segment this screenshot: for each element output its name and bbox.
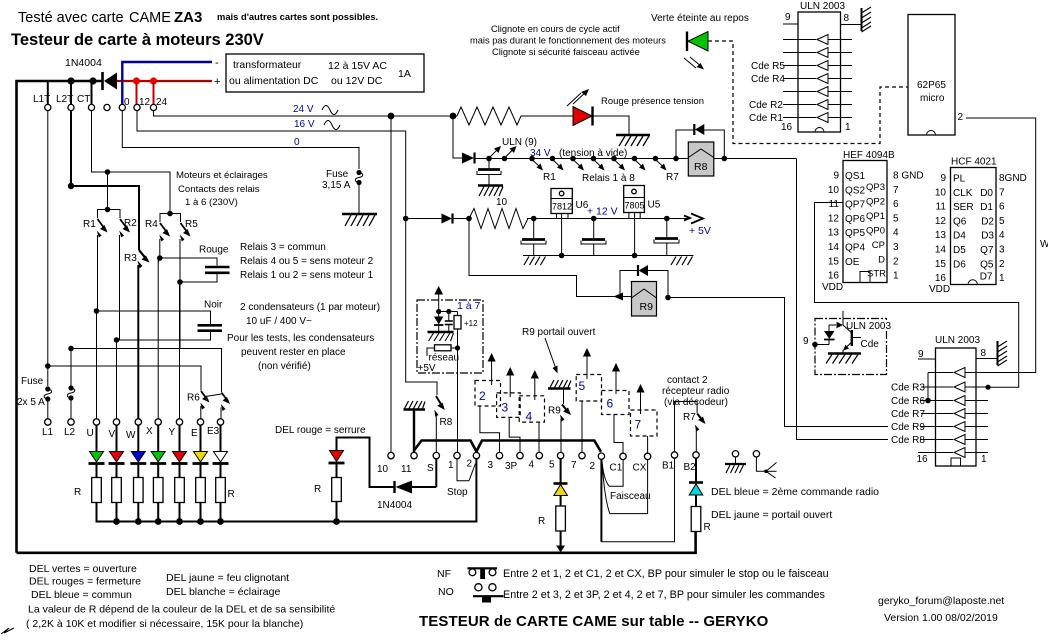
svg-text:5: 5 xyxy=(579,379,586,393)
svg-text:2: 2 xyxy=(467,459,473,470)
svg-text:Cde R9: Cde R9 xyxy=(891,422,925,433)
label DEL rouge serrure xyxy=(275,425,366,436)
svg-text:ULN 2003: ULN 2003 xyxy=(935,335,980,346)
svg-text:VDD: VDD xyxy=(822,282,843,293)
svg-text:2: 2 xyxy=(893,256,899,267)
wire Y line xyxy=(179,282,181,419)
label VDD HCF xyxy=(929,284,950,295)
svg-text:12 à 15V AC: 12 à 15V AC xyxy=(328,60,387,72)
chip HCF 4021 box xyxy=(951,168,997,285)
svg-text:6: 6 xyxy=(607,397,614,411)
hatch pad R9 xyxy=(548,380,571,389)
svg-text:QP6: QP6 xyxy=(845,214,865,225)
resistors R LED row xyxy=(92,464,226,503)
wire main input bus xyxy=(17,81,103,553)
pin 8 top ULN xyxy=(841,13,862,25)
svg-text:R8: R8 xyxy=(440,417,453,428)
transformer box xyxy=(214,54,424,92)
dashed box 6 xyxy=(602,391,630,415)
svg-text:QS1: QS1 xyxy=(845,171,865,182)
svg-text:R7: R7 xyxy=(666,172,679,183)
pin 8 bottom ULN xyxy=(976,348,997,359)
svg-text:4: 4 xyxy=(893,228,899,239)
svg-text:7: 7 xyxy=(893,185,899,196)
svg-text:W: W xyxy=(1040,239,1048,250)
svg-text:1: 1 xyxy=(999,273,1005,284)
fuse F1 3,15A xyxy=(355,170,363,213)
label R3 xyxy=(124,253,137,264)
fuse L1 xyxy=(44,386,52,418)
sine symbol 16V xyxy=(324,121,340,130)
wire L2 to switch E3 xyxy=(68,346,221,392)
svg-text:VDD: VDD xyxy=(929,284,950,295)
svg-text:1: 1 xyxy=(448,460,454,471)
legend NO symbol xyxy=(438,584,504,603)
svg-text:4: 4 xyxy=(526,410,533,424)
node rail dot ULN9b with up arrow xyxy=(502,146,517,161)
label 0 xyxy=(294,137,300,148)
svg-text:R1: R1 xyxy=(83,219,96,230)
arrow up box 6 xyxy=(612,363,620,394)
chip HEF 4094B title xyxy=(843,150,895,161)
node red junction 12 xyxy=(133,77,140,104)
svg-text:R2: R2 xyxy=(124,218,137,229)
node rail dot ULN9a with up arrow xyxy=(486,146,501,161)
resistor R jaune xyxy=(556,496,566,553)
svg-text:CT: CT xyxy=(77,94,90,105)
svg-text:11: 11 xyxy=(401,464,412,475)
svg-text:contact 2: contact 2 xyxy=(667,375,708,386)
label 1N4004 stop xyxy=(377,500,412,511)
label TESTEUR bottom xyxy=(419,613,769,630)
labels R4 R5 xyxy=(145,219,198,230)
relay contacts R4 R5 xyxy=(159,211,190,282)
pin 9 bottom ULN xyxy=(918,349,936,360)
svg-text:Clignote si sécurité faisceau: Clignote si sécurité faisceau activée xyxy=(492,47,640,57)
svg-text:8 GND: 8 GND xyxy=(893,171,924,182)
label R9 portail ouvert with arrow xyxy=(522,327,596,374)
svg-text:PL: PL xyxy=(953,174,966,185)
svg-text:9: 9 xyxy=(940,173,946,184)
HEF left labels xyxy=(845,171,865,268)
svg-text:5: 5 xyxy=(999,216,1005,227)
svg-text:récepteur radio: récepteur radio xyxy=(662,386,730,397)
wire +12V rail xyxy=(527,218,690,220)
svg-text:10: 10 xyxy=(496,197,508,208)
dash-dot box réseau xyxy=(417,300,483,373)
svg-text:NO: NO xyxy=(438,586,454,598)
svg-text:QP7: QP7 xyxy=(845,200,865,211)
arrow up réseau xyxy=(434,286,443,312)
svg-text:U5: U5 xyxy=(648,200,661,211)
switch Stop xyxy=(457,459,476,481)
svg-text:D3: D3 xyxy=(981,231,994,242)
svg-text:2: 2 xyxy=(479,389,486,403)
svg-text:Relais 4 ou 5 = sens moteur 2: Relais 4 ou 5 = sens moteur 2 xyxy=(240,256,374,267)
svg-text:mais pas durant le fonctionnem: mais pas durant le fonctionnement des mo… xyxy=(470,36,666,46)
HCF right pin numbers xyxy=(999,173,1027,284)
svg-text:micro: micro xyxy=(920,93,945,104)
switch R7 xyxy=(695,414,706,452)
svg-text:0: 0 xyxy=(294,137,300,148)
capacitor réseau xyxy=(445,312,453,332)
labels condensateurs blue xyxy=(240,302,380,327)
svg-text:réseau: réseau xyxy=(429,353,460,364)
ground detail box xyxy=(826,354,861,364)
svg-text:Y: Y xyxy=(169,427,176,438)
wire 24V net xyxy=(154,110,458,116)
svg-text:16: 16 xyxy=(781,122,793,133)
labels Cde R3 R6 R7 R9 R8 xyxy=(891,383,925,447)
labels R1 Relais 1 à 8 R7 xyxy=(543,172,679,184)
ground rail right hatches xyxy=(671,257,693,266)
chip ULN2003 bottom title xyxy=(935,335,980,346)
label 16 V xyxy=(294,119,315,130)
ground wall pin8 xyxy=(862,7,872,32)
svg-text:DEL vertes = ouverture: DEL vertes = ouverture xyxy=(29,563,137,575)
wire box 2 to terminal 3 xyxy=(480,406,500,452)
wire CT distribution xyxy=(92,110,171,214)
labels R1 R2 xyxy=(83,218,137,230)
svg-text:Moteurs et éclairages: Moteurs et éclairages xyxy=(176,170,268,181)
svg-text:13: 13 xyxy=(828,228,840,239)
label 10 xyxy=(496,197,508,208)
svg-text:Rouge présence tension: Rouge présence tension xyxy=(601,96,704,107)
svg-text:U: U xyxy=(87,428,94,439)
svg-text:W: W xyxy=(126,430,136,441)
ground fuse xyxy=(342,214,377,226)
terminal circles control row xyxy=(388,452,699,460)
label R bleue xyxy=(704,522,711,533)
svg-text:R7: R7 xyxy=(683,412,696,423)
wire L1T down xyxy=(47,110,49,386)
ground rail left hatches xyxy=(524,257,546,266)
chip U ULN2003 top box xyxy=(798,12,841,132)
svg-text:16 V: 16 V xyxy=(294,119,315,130)
svg-text:Cde R1: Cde R1 xyxy=(749,113,783,124)
wire 0V net xyxy=(122,110,359,169)
svg-text:14: 14 xyxy=(828,242,840,253)
wire box 4 to terminal 4 xyxy=(538,422,540,452)
svg-text:8GND: 8GND xyxy=(999,173,1027,184)
svg-text:D: D xyxy=(878,255,885,266)
svg-text:STR: STR xyxy=(867,269,886,280)
labels Entre lines xyxy=(503,568,829,601)
label Clignote lines xyxy=(470,24,666,57)
svg-text:D7: D7 xyxy=(980,272,993,283)
LED jaune portail xyxy=(554,459,568,496)
svg-text:CX: CX xyxy=(633,463,647,474)
svg-text:Fuse: Fuse xyxy=(21,376,44,387)
svg-text:1N4004: 1N4004 xyxy=(65,57,102,69)
LED Y red xyxy=(172,452,188,464)
pin 9 top ULN xyxy=(783,12,798,24)
svg-text:9: 9 xyxy=(918,349,924,360)
svg-text:-: - xyxy=(215,57,219,69)
diode D2 xyxy=(462,153,475,164)
node R9 right junction xyxy=(665,295,671,301)
svg-text:Relais 1 ou 2 = sens moteur 1: Relais 1 ou 2 = sens moteur 1 xyxy=(240,270,374,281)
ground réseau xyxy=(428,332,454,341)
wire from node A down to terminal 10 xyxy=(390,116,392,452)
relay contact R3 xyxy=(138,250,150,419)
svg-text:CAME: CAME xyxy=(129,10,171,26)
svg-text:CLK: CLK xyxy=(953,188,973,199)
svg-text:10: 10 xyxy=(828,185,840,196)
svg-text:D5: D5 xyxy=(953,245,966,256)
svg-text:Testé avec carte: Testé avec carte xyxy=(18,10,124,26)
wire ground rail xyxy=(523,253,694,259)
chip ULN2003 bottom box xyxy=(936,348,977,466)
svg-text:7805: 7805 xyxy=(625,201,645,211)
svg-text:7812: 7812 xyxy=(552,202,572,212)
svg-text:DEL jaune = feu clignotant: DEL jaune = feu clignotant xyxy=(166,572,289,584)
zener réseau xyxy=(434,312,443,332)
svg-text:DEL bleue = commun: DEL bleue = commun xyxy=(31,589,132,601)
svg-text:24: 24 xyxy=(156,97,168,108)
HCF left pin numbers xyxy=(935,173,947,284)
svg-text:R: R xyxy=(704,522,711,533)
label U6 xyxy=(576,200,589,211)
svg-text:E: E xyxy=(191,428,198,439)
svg-text:Relais 1 à 8: Relais 1 à 8 xyxy=(582,173,635,184)
svg-text:7: 7 xyxy=(571,460,577,471)
svg-text:(via décodeur): (via décodeur) xyxy=(664,397,728,408)
svg-text:Cde R5: Cde R5 xyxy=(751,61,785,72)
svg-text:CP: CP xyxy=(872,240,885,251)
svg-text:7: 7 xyxy=(635,418,642,432)
svg-text:1 à 7: 1 à 7 xyxy=(457,300,481,312)
svg-text:DEL rouge = serrure: DEL rouge = serrure xyxy=(275,425,366,436)
capacitor Rouge xyxy=(157,255,230,349)
labels DEL bleue jaune right xyxy=(711,486,879,521)
chip 62P65 micro xyxy=(908,15,955,136)
svg-text:Relais 3 = commun: Relais 3 = commun xyxy=(240,242,326,253)
node 16V rail dot xyxy=(403,216,409,222)
flash arrow on red LED xyxy=(567,89,589,106)
wire box 6 to C1 xyxy=(614,415,623,454)
label +12V xyxy=(587,206,618,218)
label R6 xyxy=(187,393,200,404)
wire terminal CT xyxy=(91,81,93,104)
svg-text:R5: R5 xyxy=(185,219,198,230)
wire LED return bus xyxy=(97,459,477,525)
pins 16 and 1 top ULN xyxy=(781,122,851,133)
label 24 V xyxy=(293,104,314,115)
switch R8 middle xyxy=(406,219,445,453)
wire 34V rail to Cde R8 xyxy=(797,159,936,440)
LED E3 white xyxy=(213,452,229,464)
label Rouge présence tension xyxy=(601,96,704,107)
svg-text:Fuse: Fuse xyxy=(326,169,349,180)
title line 2 xyxy=(11,31,264,49)
labels réseau +5V xyxy=(418,353,460,375)
svg-text:24 V: 24 V xyxy=(293,104,314,115)
node junction CT xyxy=(89,77,96,84)
node réseau dots xyxy=(436,309,457,314)
HEF right pin numbers xyxy=(893,171,924,282)
svg-text:E3: E3 xyxy=(207,426,220,437)
svg-text:HCF 4021: HCF 4021 xyxy=(951,157,997,168)
label +5V xyxy=(689,225,711,237)
node 24V junction A xyxy=(388,113,395,120)
wire bottom frame xyxy=(17,532,696,553)
label Fuse 3,15 A xyxy=(322,169,351,191)
arrow up box 3 xyxy=(506,367,514,397)
svg-text:6: 6 xyxy=(893,199,899,210)
wire box 3 to terminal 3P xyxy=(509,417,520,452)
label Noir xyxy=(204,300,223,311)
svg-text:R: R xyxy=(538,516,545,527)
arrow up box 4 xyxy=(531,370,539,400)
LED V red xyxy=(109,452,125,464)
labels DEL legend left xyxy=(29,563,141,601)
relay R9 block xyxy=(620,271,668,298)
capacitor C ULN9 xyxy=(477,159,501,185)
svg-text:peuvent rester en place: peuvent rester en place xyxy=(241,347,346,358)
svg-text:La valeur de R dépend de la co: La valeur de R dépend de la couleur de l… xyxy=(28,604,335,616)
svg-text:Contacts des relais: Contacts des relais xyxy=(178,184,260,195)
sine symbol 24V xyxy=(322,106,338,115)
LED red presence tension xyxy=(573,107,593,126)
svg-text:R9: R9 xyxy=(640,301,654,313)
svg-text:3: 3 xyxy=(893,242,899,253)
svg-text:10: 10 xyxy=(377,464,389,475)
svg-text:transformateur: transformateur xyxy=(233,59,302,71)
svg-text:(non vérifié): (non vérifié) xyxy=(258,361,311,372)
relay R9 box xyxy=(632,282,657,317)
flash arrow green LED xyxy=(684,57,704,70)
svg-text:1A: 1A xyxy=(398,68,411,80)
svg-text:L1T: L1T xyxy=(33,94,50,105)
svg-text:ou alimentation DC: ou alimentation DC xyxy=(229,75,319,87)
wire HEF pin11 loop xyxy=(815,203,1019,390)
label R9 switch xyxy=(548,406,561,417)
svg-text:D4: D4 xyxy=(953,231,966,242)
wire box 5 to terminal 7p xyxy=(581,401,583,452)
svg-text:R8: R8 xyxy=(694,161,708,173)
svg-text:ZA3: ZA3 xyxy=(174,9,202,26)
regulator U5 7805 xyxy=(624,186,645,256)
legend NF symbol xyxy=(437,568,497,580)
label Rouge xyxy=(199,245,229,256)
svg-text:R3: R3 xyxy=(124,253,137,264)
diode D4 on R8 xyxy=(694,124,704,135)
label Stop xyxy=(447,487,468,498)
svg-text:Cde R2: Cde R2 xyxy=(749,100,783,111)
link R6 blades xyxy=(206,394,222,397)
labels L1T L2T CT xyxy=(33,94,90,105)
svg-text:3: 3 xyxy=(488,460,494,471)
wire to diode D3 xyxy=(406,218,442,220)
contact 2 récepteur radio labels xyxy=(662,375,730,408)
svg-text:3P: 3P xyxy=(505,461,518,472)
resistor 10 zigzag xyxy=(469,209,530,229)
terminal circles motor row xyxy=(45,419,224,425)
labels R left right xyxy=(74,487,235,500)
resistor +12 réseau xyxy=(454,312,478,330)
wire S terminal to diode xyxy=(435,459,437,487)
node 24V junction B xyxy=(450,113,457,120)
labels control terminals xyxy=(377,459,696,476)
wire terminal 2 to bus (drawn with bus) label none xyxy=(600,459,602,541)
svg-text:C1: C1 xyxy=(610,463,623,474)
svg-text:5: 5 xyxy=(549,460,555,471)
label Verte éteinte au repos xyxy=(651,13,749,24)
svg-text:9: 9 xyxy=(785,12,791,23)
diode 1N4004 stop xyxy=(395,481,437,494)
inverters bottom ULN xyxy=(918,368,989,458)
wire R9 to Cde R9 xyxy=(668,298,936,427)
relay R8 block legs xyxy=(673,130,727,161)
dash-dot box ULN detail xyxy=(815,319,891,375)
dashed box 5 xyxy=(576,375,601,402)
svg-text:L1: L1 xyxy=(42,427,54,438)
svg-text:QP2: QP2 xyxy=(866,197,885,208)
svg-text:R: R xyxy=(314,484,321,495)
svg-text:2: 2 xyxy=(999,259,1005,270)
svg-text:ULN 2003: ULN 2003 xyxy=(800,1,845,12)
title line 1 xyxy=(18,9,378,26)
svg-text:Cde R6: Cde R6 xyxy=(891,396,925,407)
svg-text:( 2,2K à 10K et modifier si né: ( 2,2K à 10K et modifier si nécessaire, … xyxy=(26,618,303,630)
label Cde detail xyxy=(861,339,880,350)
relay drive arrows R1..R7 on rail xyxy=(529,156,666,171)
wire V line xyxy=(116,340,118,419)
svg-text:R9 portail ouvert: R9 portail ouvert xyxy=(522,327,596,338)
svg-text:Version 1.00 08/02/2019: Version 1.00 08/02/2019 xyxy=(884,612,998,624)
labels Relais commun xyxy=(240,242,374,281)
svg-text:1N4004: 1N4004 xyxy=(377,500,412,511)
terminal circles row top xyxy=(45,104,157,110)
labels Moteurs et éclairages xyxy=(176,170,268,208)
label R7 switch xyxy=(683,412,696,423)
label 1 à 7 blue xyxy=(457,300,481,312)
svg-text:Cde: Cde xyxy=(861,339,880,350)
svg-text:12: 12 xyxy=(139,97,151,108)
HEF left pin numbers xyxy=(828,171,840,282)
svg-text:QP5: QP5 xyxy=(845,228,865,239)
svg-text:+12: +12 xyxy=(464,319,478,328)
diode D1 1N4004 xyxy=(103,72,118,90)
pins 16 and 1 bottom ULN xyxy=(917,454,988,465)
label 1N4004 top xyxy=(65,57,102,69)
svg-text:Pour les tests, les condensate: Pour les tests, les condensateurs xyxy=(227,333,374,344)
probe ground symbol xyxy=(725,451,746,473)
dashed box 7 xyxy=(631,410,658,436)
wire L1 to switch E xyxy=(45,363,201,390)
diode D8 on R9 xyxy=(638,265,648,276)
svg-text:13: 13 xyxy=(935,230,947,241)
svg-text:R: R xyxy=(228,489,235,500)
svg-text:+5V: +5V xyxy=(418,363,436,374)
switch R9 xyxy=(560,389,571,453)
labels Pour les tests xyxy=(227,333,374,372)
wire terminal L1T xyxy=(47,81,49,104)
svg-text:DEL rouges = fermeture: DEL rouges = fermeture xyxy=(29,576,141,588)
svg-text:2: 2 xyxy=(958,112,964,123)
ground wall bottom ULN xyxy=(998,341,1008,366)
svg-text:NF: NF xyxy=(437,568,451,580)
svg-text:B1: B1 xyxy=(662,461,675,472)
svg-text:R9: R9 xyxy=(548,406,561,417)
svg-text:ULN (9): ULN (9) xyxy=(502,137,537,148)
svg-text:+: + xyxy=(214,76,220,88)
svg-text:1 à 6 (230V): 1 à 6 (230V) xyxy=(185,197,238,208)
svg-text:X: X xyxy=(146,426,153,437)
ground red LED xyxy=(616,135,650,146)
chip U ULN2003 top title xyxy=(800,1,845,12)
